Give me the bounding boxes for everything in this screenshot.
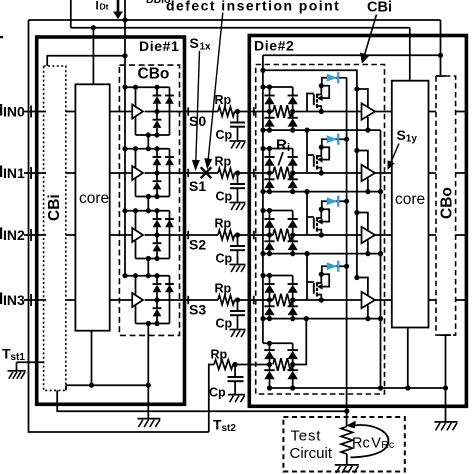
diode upper clamp D1 cell1 [156, 149, 158, 157]
diode defect-monitor (blue) cell3 [327, 262, 338, 270]
ground symbol Cp row2 [230, 264, 246, 266]
node drain cell3 [319, 272, 324, 277]
transistor M3 drain lead [317, 209, 321, 218]
node colB row cell0 [290, 109, 295, 114]
cropped glyph at left edge row IN3 [0, 293, 2, 305]
resistor Rc [341, 427, 353, 455]
wire buffer output to core cell2 [375, 234, 392, 236]
pad tick row1 die2 side [253, 169, 255, 177]
node Cp tap row0 [235, 109, 240, 114]
node trunk-gndrail cell0 [260, 128, 265, 133]
capacitor Cp row3 [237, 300, 239, 311]
node colB row cell1 [290, 170, 295, 175]
wire CBi1 bottom stub [65, 385, 67, 390]
diode clamp colB upper cell2 [288, 218, 298, 220]
block CBo of Die#1 (dashed box) [119, 65, 179, 335]
node gnd rail diode cell0 [154, 132, 159, 137]
node cell5 colB gnd [290, 385, 295, 390]
arrow from CBi label to CBi box [364, 15, 376, 56]
wire row entering die2 cell0 [251, 111, 273, 113]
wire Die#1 CBo supply trunk from H1 [124, 0, 126, 276]
ground symbol Cp test channel [228, 394, 245, 396]
pad tick S3 die1 side [187, 296, 189, 304]
wire CBo2 to border row2 [456, 234, 465, 236]
node trunk-gndrail cell1 [260, 189, 265, 194]
node Tst line to Rc trunk [344, 409, 349, 414]
transistor M2 gate arm [307, 154, 314, 156]
svg-text:Cp: Cp [216, 317, 233, 331]
wire CBo cell1 GND rail [136, 196, 170, 198]
node rail-leftvert cell1 [133, 146, 138, 151]
capacitor Cp row2 [237, 235, 239, 246]
wire CBi2 cell3 VDD rail [263, 275, 293, 277]
transistor M1 source lead [317, 106, 321, 111]
wire IN0 to core [66, 111, 76, 113]
op-amp buffer B10 [132, 105, 143, 119]
wire row entering die2 cell3 [251, 299, 273, 301]
node drain cell0 [319, 83, 324, 88]
wire buffer output to core cell1 [375, 172, 392, 174]
diode clamp colA upper cell0 [269, 87, 271, 96]
wire VDDio vertical from top edge [70, 0, 72, 28]
pad tick IN2 [30, 229, 32, 241]
node Cp tap row2 [235, 232, 240, 237]
node Cp tap row3 [235, 297, 240, 302]
svg-text:core: core [79, 190, 109, 207]
node colA row cell1 [267, 170, 272, 175]
wire CBo cell3 VDD rail [125, 275, 170, 277]
node buffer gnd cell3 [365, 316, 370, 321]
wire CBo cell2 GND rail [136, 258, 170, 260]
node source-row cell3 [319, 297, 324, 302]
svg-text:Dt: Dt [100, 2, 109, 12]
svg-text:Cp: Cp [216, 190, 233, 204]
wire row to transistor cell1 [292, 172, 362, 174]
node source-row cell2 [319, 232, 324, 237]
wire channel row S1 left [186, 172, 218, 174]
diode lower clamp D2 cell3 [156, 300, 158, 308]
diode clamp colB upper cell0 [288, 95, 298, 97]
wire buffer output row2 [145, 234, 187, 236]
wire channel row S3 left [186, 299, 218, 301]
wire channel row S2 right [235, 234, 252, 236]
wire Die#1 core supply drop [92, 28, 94, 85]
wire channel row S1 right [235, 172, 252, 174]
wire blue diode feed cell0 [322, 78, 347, 86]
wire CBo cell0 left vertical [135, 87, 137, 135]
pad tick IN3 [30, 294, 32, 306]
wire buffer output to core cell0 [375, 111, 392, 113]
pad tick row3 die2 side [253, 296, 255, 304]
svg-text:V: V [371, 436, 381, 452]
transistor M2 gate line [306, 130, 308, 173]
op-amp buffer B20 [362, 103, 376, 120]
diode upper clamp D3 cell0 column2 [165, 95, 174, 97]
svg-text:S: S [190, 35, 199, 51]
resistor Rp row2 [218, 230, 235, 240]
resistor Rp row3 [218, 295, 235, 305]
wire H1 IO supply [29, 19, 441, 21]
svg-text:CBo: CBo [439, 187, 456, 219]
transistor M4 gate line [306, 254, 308, 300]
diode upper clamp D3 cell1 column2 [165, 156, 174, 158]
wire colB vertical cell1 [292, 149, 294, 158]
svg-text:S3: S3 [189, 302, 206, 318]
diode upper clamp D1 cell3 [156, 276, 158, 284]
resistor Ri cell5 [273, 358, 292, 371]
wire Rc to ground [346, 454, 348, 465]
wire input from core row2 [110, 234, 133, 236]
node gnd rail diode cell1 [154, 194, 159, 199]
block CBi of Die#1 (dotted box) [44, 66, 66, 390]
diode lower clamp D2 cell0 [156, 112, 158, 120]
wire diode column2 cell1 [169, 149, 171, 197]
transistor M4 source lead [317, 295, 321, 300]
wire buffer output row1 [145, 172, 187, 174]
node trunk-gndrail cell2 [260, 251, 265, 256]
node trunk-rail cell1 [122, 146, 127, 151]
wire cell5 row to cell4 gnd rail [292, 319, 306, 365]
node gnd trunk rail cell2 [378, 251, 383, 256]
node vddrail-colA cell1 [267, 146, 272, 151]
wire CBi2 cell5 supply rail [263, 342, 293, 344]
ground symbol Cp row0 [230, 140, 246, 142]
wire buffer supply arm cell3 [357, 278, 368, 296]
svg-text:S: S [397, 127, 406, 143]
wire input from core row3 [110, 299, 133, 301]
die Die#2 outline [249, 36, 466, 407]
node gnd trunk rail cell1 [378, 189, 383, 194]
transistor M3 channel segments [316, 217, 318, 221]
transistor M4 bulk loop with arrow [321, 274, 329, 286]
defect X mark at S1 [201, 167, 212, 178]
node Die#1 CBi branch [122, 53, 127, 58]
block CBo of Die#2 (dashed box) [436, 76, 456, 335]
transistor M3 source lead [317, 230, 321, 235]
wire buffer output row3 [145, 299, 187, 301]
node CBo2 gnd rail [443, 385, 448, 390]
resistor Ri cell3 [273, 294, 292, 307]
pad tick row2 die2 side [253, 231, 255, 239]
ground symbol Cp row3 [230, 329, 246, 331]
diode clamp cell5 colA lower [269, 365, 271, 371]
node diode-row cell3 [154, 297, 159, 302]
wire channel row S2 left [186, 234, 218, 236]
wire row to transistor cell0 [292, 111, 362, 113]
wire Die#2 CBo supply drop from H1 [440, 20, 442, 76]
ground symbol Tst1 [8, 370, 26, 372]
arrow S1y to node [390, 144, 399, 164]
pad tick S2 die1 side [187, 231, 189, 239]
node on H1 at Die#1 trunk [122, 17, 127, 22]
svg-text:Test: Test [291, 428, 322, 445]
op-amp buffer B11 [132, 166, 143, 180]
wire CBi2 cell0 VDD rail [263, 86, 293, 88]
node chain link bottom cell2 [146, 273, 151, 278]
node vddrail-colA cell2 [267, 208, 272, 213]
svg-text:Rp: Rp [215, 155, 232, 169]
svg-text:st2: st2 [222, 423, 237, 434]
wire colB vertical cell0 [292, 87, 294, 96]
node colA row cell3 [267, 297, 272, 302]
block core of Die#1 [75, 84, 109, 330]
transistor M4 gate arm [307, 281, 314, 283]
node gnd rail link cell1 [146, 194, 151, 199]
node chain link bottom cell1 [146, 208, 151, 213]
transistor M3 bulk loop with arrow [321, 209, 329, 221]
transistor M1 gate bar [313, 94, 315, 105]
diode clamp colA lower cell1 [269, 173, 271, 179]
wire CBo cell3 GND rail [136, 323, 170, 325]
node source-row cell1 [319, 170, 324, 175]
capacitor Cp row0 [237, 112, 239, 123]
block Test Circuit (dashed box) [283, 417, 404, 472]
pad tick IN0 [30, 106, 32, 118]
node gnd rail link cell3 [146, 321, 151, 326]
wire buffer output to core cell3 [375, 299, 392, 301]
wire row to transistor cell3 [292, 299, 362, 301]
op-amp buffer B23 [362, 292, 376, 309]
wire supply chain link cell2 [147, 259, 149, 276]
arrow S1x to node S1 [196, 51, 200, 162]
node trunk-vddrail cell3 [260, 273, 265, 278]
wire IN2 input [24, 234, 46, 236]
node chain link bottom cell0 [146, 146, 151, 151]
resistor Rp test channel [214, 360, 233, 370]
wire CBo cell1 left vertical [135, 149, 137, 197]
svg-text:CBi: CBi [367, 0, 392, 15]
wire test channel from Tst2 [209, 365, 214, 433]
wire channel row S0 right [235, 111, 252, 113]
node gnd rail diode cell2 [154, 256, 159, 261]
svg-text:st1: st1 [11, 352, 26, 363]
node buffer supply cell0 [354, 86, 359, 91]
transistor M3 gate arm [307, 216, 314, 218]
wire core2 to CBo2 row1 [429, 172, 437, 174]
cropped wire stub left edge [0, 36, 3, 38]
wire colB vertical cell2 [292, 211, 294, 220]
svg-text:I: I [96, 1, 99, 13]
wire test channel to Die#2 [233, 364, 270, 366]
svg-text:IN1: IN1 [3, 165, 25, 181]
wire CBo cell1 VDD rail [125, 148, 170, 150]
svg-text:R: R [276, 137, 287, 154]
wire supply chain link cell1 [147, 197, 149, 211]
node trunk-vddrail cell2 [260, 208, 265, 213]
voltage measure arc VRc [351, 425, 389, 457]
transistor M2 channel segments [316, 155, 318, 159]
node diode-row cell0 [154, 109, 159, 114]
transistor M2 source lead [317, 168, 321, 173]
node rail5 colA [267, 341, 272, 346]
ground symbol below Die#2 right [435, 421, 458, 423]
wire CBo2 to border row1 [456, 172, 465, 174]
svg-text:Die#2: Die#2 [254, 38, 294, 54]
wire cell5 colB vertical upper [292, 343, 294, 350]
pad tick S1 die1 side [187, 169, 189, 177]
ground symbol Cp row1 [230, 202, 246, 204]
wire CBi2 cell1 VDD rail [263, 148, 293, 150]
diode clamp colB lower cell1 [292, 173, 294, 179]
diode upper clamp D3 cell2 column2 [165, 218, 174, 220]
svg-text:1y: 1y [406, 134, 418, 145]
node colB gnd cell3 [290, 316, 295, 321]
svg-text:Rp: Rp [215, 93, 232, 107]
diode clamp colA lower cell2 [269, 235, 271, 241]
svg-text:IN3: IN3 [3, 292, 25, 308]
wire blue diode feed cell2 [322, 201, 347, 209]
node buffer gnd cell0 [365, 128, 370, 133]
wire row entering die2 cell1 [251, 172, 273, 174]
transistor M2 bulk loop with arrow [321, 147, 329, 159]
op-amp buffer B13 [132, 293, 143, 307]
node rail-leftvert cell2 [133, 208, 138, 213]
wire CBo2 tap to ground [440, 334, 451, 336]
node trunk-rail cell3 [122, 273, 127, 278]
wire CBo cell2 VDD rail [125, 210, 170, 212]
node Cp tap test channel [233, 362, 238, 367]
node rail-diode column cell2 [154, 208, 159, 213]
transistor M3 gate line [306, 192, 308, 235]
node Die#2 CBi supply branch on CBo drop [438, 53, 443, 58]
wire left supply trunk down left side (Tst2 net) [29, 20, 209, 432]
node gnd rail diode cell3 [154, 321, 159, 326]
wire CBo cell0 GND rail [136, 134, 170, 136]
node trunk-gndrail cell3 [260, 316, 265, 321]
svg-text:i: i [287, 142, 290, 154]
transistor M4 gate bar [313, 283, 315, 294]
diode clamp colB lower cell3 [292, 300, 294, 306]
node Die#2 CBi trunk / VDD branch [260, 68, 265, 73]
wire Die#2 core supply drop [409, 28, 411, 81]
wire core2 ground drop [407, 328, 409, 389]
wire CBi2 cell0 GND rail [263, 129, 381, 131]
wire buffer bottom to gnd rail cell3 [367, 306, 369, 319]
resistor Ri cell1 [273, 167, 292, 180]
wire CBo2 to border row0 [456, 111, 465, 113]
node colB gnd cell2 [290, 251, 295, 256]
node gnd rail to CBo chain [146, 383, 151, 388]
node buffer supply cell3 [354, 275, 359, 280]
node colA row cell0 [267, 109, 272, 114]
wire supply chain link cell0 [147, 135, 149, 149]
node colB gnd cell0 [290, 128, 295, 133]
node vddrail-colA cell0 [267, 84, 272, 89]
svg-text:1x: 1x [200, 42, 212, 53]
node buffer supply cell2 [354, 210, 359, 215]
wire core2 to CBo2 row2 [429, 234, 437, 236]
diode clamp colA upper cell2 [269, 211, 271, 220]
wire Die#2 CBi supply line [263, 54, 441, 56]
wire diode column2 cell0 [169, 87, 171, 135]
node rail-diode column cell3 [154, 273, 159, 278]
wire diode column2 cell3 [169, 276, 171, 324]
node cell5 colA row [267, 362, 272, 367]
transistor M1 gate arm [307, 93, 314, 95]
svg-text:CBi: CBi [46, 194, 63, 221]
node rail-leftvert cell3 [133, 273, 138, 278]
svg-text:Die#1: Die#1 [139, 38, 179, 54]
transistor M1 bulk loop with arrow [321, 86, 329, 98]
svg-text:Rp: Rp [211, 348, 228, 362]
node gnd trunk rail cell3 [378, 316, 383, 321]
svg-text:IN2: IN2 [3, 227, 25, 243]
node colB gnd cell1 [290, 189, 295, 194]
current arrow IDt [117, 0, 120, 13]
wire blue-diode current trunk to Rc [346, 78, 348, 427]
diode clamp colA upper cell1 [269, 149, 271, 158]
node colA row cell2 [267, 232, 272, 237]
svg-text:CBo: CBo [138, 66, 170, 83]
resistor Ri cell0 [273, 105, 292, 118]
transistor M1 channel segments [316, 94, 318, 98]
svg-text:Rp: Rp [215, 217, 232, 231]
wire colB vertical cell3 [292, 276, 294, 285]
wire CBo cell3 left vertical [135, 276, 137, 324]
wire buffer bottom to gnd rail cell0 [367, 117, 369, 130]
diode clamp cell5 colB upper [287, 349, 298, 351]
transistor M1 drain lead [317, 86, 321, 95]
wire core2 to CBo2 row3 [429, 299, 437, 301]
wire CBo cell0 VDD rail [125, 86, 170, 88]
diode clamp colB lower cell0 [292, 112, 294, 118]
diode clamp cell5 colA upper [269, 343, 271, 350]
node diode trunk cell3 [344, 264, 349, 269]
node colB row cell2 [290, 232, 295, 237]
node diode-row cell2 [154, 232, 159, 237]
arrow defect insertion point to X [208, 13, 223, 161]
node cell5 colA gnd [267, 385, 272, 390]
node drain cell1 [319, 145, 324, 150]
wire channel row S0 left [186, 111, 218, 113]
wire IN1 input [24, 172, 46, 174]
wire IN3 to core [66, 299, 76, 301]
pad tick S0 die1 side [187, 107, 189, 115]
transistor M4 channel segments [316, 282, 318, 286]
wire buffer bottom to gnd rail cell2 [367, 241, 369, 254]
diode lower clamp D2 cell2 [156, 235, 158, 243]
wire CBo2 to border row3 [456, 299, 465, 301]
wire Die#2 CBi trunk [262, 55, 264, 343]
node colA gnd cell2 [267, 251, 272, 256]
node core2 gnd [405, 385, 410, 390]
node diode trunk cell2 [344, 199, 349, 204]
node source-row cell0 [319, 109, 324, 114]
node buffer supply cell1 [354, 148, 359, 153]
diode defect-monitor (blue) cell2 [327, 197, 338, 205]
capacitor Cp row1 [237, 173, 239, 184]
die Die#1 outline [37, 37, 185, 404]
node buffer gnd cell1 [365, 189, 370, 194]
svg-text:Rc: Rc [352, 436, 370, 452]
resistor Rp row1 [218, 168, 235, 178]
wire CBi2 cell2 GND rail [263, 253, 381, 255]
cropped glyph at left edge row IN2 [0, 228, 2, 240]
wire Die#2 CBi cell supply rail feed / buffer supply trunk [263, 70, 357, 277]
node buffer gnd cell2 [365, 251, 370, 256]
op-amp buffer B21 [362, 165, 376, 182]
wire diode column2 cell2 [169, 211, 171, 259]
ground symbol below Die#1 [137, 418, 160, 420]
wire row to transistor cell2 [292, 234, 362, 236]
wire input from core row1 [110, 172, 133, 174]
diode clamp cell5 colB lower [292, 365, 294, 371]
wire CBo cell2 left vertical [135, 211, 137, 259]
node on H2 at Die#1 core drop [91, 25, 96, 30]
op-amp buffer B22 [362, 227, 376, 244]
svg-text:S1: S1 [189, 178, 206, 194]
diode clamp colB upper cell3 [288, 283, 298, 285]
